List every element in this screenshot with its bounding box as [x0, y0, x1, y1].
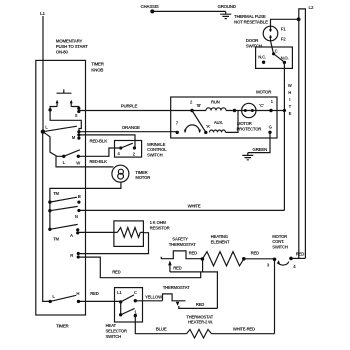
heating element [202, 234, 243, 266]
svg-text:E: E [289, 111, 292, 116]
svg-text:THERMAL FUSE: THERMAL FUSE [234, 14, 266, 19]
motor pin 1 node C [259, 99, 273, 112]
motor aux winding [210, 120, 226, 132]
start switch arm B to A [192, 111, 206, 132]
svg-text:RED: RED [196, 302, 204, 307]
wire red-blk: timer M to wrinkle switch 2 [80, 135, 135, 148]
svg-text:RED-BLK: RED-BLK [89, 159, 108, 164]
svg-text:HEATER-2 W.: HEATER-2 W. [188, 320, 213, 325]
svg-text:RED: RED [173, 265, 181, 270]
wire L to L/W contact [43, 132, 64, 157]
contact H [76, 291, 80, 303]
svg-text:MOTOR: MOTOR [272, 234, 288, 239]
svg-text:YELLOW: YELLOW [145, 295, 163, 300]
thermostat (regulating) [163, 285, 191, 301]
svg-text:TM: TM [53, 191, 59, 196]
junction run/aux [233, 109, 236, 112]
switch arm L to H [50, 295, 76, 301]
centrifugal switch arc [184, 125, 201, 133]
svg-text:SWITCH: SWITCH [246, 43, 262, 48]
svg-text:CHASSIS: CHASSIS [141, 4, 159, 9]
wire white: door switch N.O. down and across to timer N [80, 62, 284, 210]
svg-text:N.C.: N.C. [258, 55, 266, 60]
svg-text:'B': 'B' [197, 103, 202, 108]
svg-text:RED: RED [189, 251, 197, 256]
label WHITE (horizontal) [188, 204, 201, 209]
svg-text:AUX.: AUX. [214, 120, 223, 125]
svg-text:SAFETY: SAFETY [172, 237, 188, 242]
svg-text:WHITE-RED: WHITE-RED [233, 327, 255, 332]
contact R [70, 252, 80, 259]
svg-text:GROUND: GROUND [218, 4, 237, 9]
svg-text:CONTROL: CONTROL [147, 147, 167, 152]
timer box [36, 60, 86, 328]
wire thermal fuse to door switch C [271, 41, 274, 54]
svg-text:BLUE: BLUE [156, 326, 167, 331]
svg-text:SWITCH: SWITCH [106, 334, 122, 339]
svg-text:RED: RED [251, 251, 259, 256]
svg-text:RED-BLK: RED-BLK [90, 138, 109, 143]
svg-text:RESISTOR: RESISTOR [150, 226, 171, 231]
junction white/motor 1 [283, 109, 286, 112]
wire red: switch 4 to L2 [291, 252, 305, 259]
contact L (timer motor) [62, 155, 66, 165]
push button actuator arrows [50, 100, 79, 110]
wire L contact to timer motor [56, 156, 113, 167]
wire L2 to thermal fuse [271, 19, 299, 26]
svg-text:THERMOSTAT: THERMOSTAT [169, 242, 196, 247]
svg-text:SELECTOR: SELECTOR [106, 329, 128, 334]
wire motor 1 to white line [271, 110, 284, 112]
motor node A [204, 124, 210, 134]
svg-text:TIMER: TIMER [135, 170, 148, 175]
motor cont. switch pins 3/4 [267, 234, 296, 269]
svg-text:GREEN: GREEN [252, 147, 267, 152]
junction heating element right [242, 257, 246, 261]
thermal fuse F1/F2 [234, 14, 286, 42]
svg-text:MOTOR: MOTOR [237, 121, 253, 126]
svg-text:RED: RED [90, 291, 98, 296]
svg-text:H: H [76, 291, 79, 296]
svg-text:SWITCH: SWITCH [147, 153, 163, 158]
svg-text:KNOB: KNOB [91, 67, 104, 72]
contact W [76, 155, 81, 166]
wire blue: heat selector 1 to thermostat heater [135, 316, 186, 334]
wire yellow: heat selector C to thermostat [135, 295, 163, 301]
svg-text:DOOR: DOOR [246, 38, 259, 43]
contact TM-N [48, 206, 80, 219]
wire red: R to safety thermostat junction [80, 257, 201, 278]
node L2 (bus bar) [299, 5, 314, 258]
motor run winding [206, 99, 226, 110]
thermostat heater element [187, 329, 212, 338]
wire white-red vertical [274, 259, 276, 333]
ground (motor green ground symbol) [242, 153, 253, 160]
contact M [72, 130, 81, 140]
resistor 1K OHM [114, 220, 171, 246]
wire L1 vertical drop to timer [42, 16, 44, 132]
ground (chassis ground symbol) [218, 4, 237, 19]
wire red: element to motor cont switch 3 [244, 251, 275, 259]
motor box [171, 90, 277, 139]
svg-text:PUSH TO START: PUSH TO START [56, 44, 88, 49]
wire chassis to ground [152, 10, 225, 12]
wire timer motor return bus [50, 182, 121, 229]
node L junction [41, 124, 49, 134]
svg-text:RED: RED [296, 252, 304, 257]
wire white-red bottom [212, 327, 275, 334]
node CHASSIS [141, 4, 159, 13]
timer motor TM [112, 165, 151, 182]
wire L bus down to L/H contact [43, 132, 51, 302]
svg-text:PROTECTOR: PROTECTOR [237, 126, 263, 131]
contact S [75, 107, 81, 118]
contact L (heat) [49, 294, 56, 303]
svg-text:'A': 'A' [206, 124, 211, 129]
svg-text:N: N [75, 214, 78, 219]
wire orange: timer M to motor 7 [80, 125, 177, 132]
motor pin 2 node B [190, 99, 201, 112]
motor protector [237, 103, 263, 131]
svg-text:RED: RED [112, 269, 120, 274]
junction L2/thermal fuse [297, 17, 301, 21]
wire purple: timer S to motor 2 [80, 103, 192, 110]
wire red-blk: W to wrinkle switch 4 [78, 148, 121, 164]
connector arrow to thermostat heater [176, 302, 218, 309]
svg-text:WRINKLE: WRINKLE [147, 142, 166, 147]
contact TM-B [48, 191, 80, 204]
svg-text:I: I [289, 97, 290, 102]
svg-text:THERMOSTAT: THERMOSTAT [163, 285, 190, 290]
svg-text:TIMER: TIMER [56, 323, 70, 328]
svg-text:'C': 'C' [259, 103, 264, 108]
svg-text:S: S [75, 113, 78, 118]
svg-text:WHITE: WHITE [188, 204, 201, 209]
svg-text:HEATING: HEATING [211, 234, 229, 239]
svg-text:NOT RESETABLE: NOT RESETABLE [234, 19, 268, 24]
label thermostat heater [186, 314, 213, 324]
svg-text:TIMER: TIMER [91, 62, 105, 67]
svg-text:F1: F1 [281, 27, 286, 32]
wire red: timer H to heat selector [80, 291, 121, 301]
wire start-left to M [50, 110, 81, 131]
wire 1k resistor to R contact [80, 232, 149, 253]
wire run winding to protector [192, 110, 271, 112]
switch arm L to W [64, 150, 80, 157]
motor pin 7 [176, 120, 179, 134]
switch arm L to S circuit [43, 126, 77, 132]
label timer knob [91, 62, 105, 73]
svg-text:B: B [78, 194, 81, 199]
svg-text:ORANGE: ORANGE [122, 125, 140, 130]
wrinkle control switch [115, 141, 168, 158]
svg-text:ELEMENT: ELEMENT [211, 239, 230, 244]
contact TM-A [48, 224, 79, 241]
contact start-left [48, 108, 51, 111]
motor ground pin G [268, 124, 272, 134]
svg-text:PURPLE: PURPLE [121, 103, 138, 108]
wire A to 1k resistor [79, 231, 117, 233]
svg-text:L1: L1 [40, 11, 45, 16]
svg-text:TM: TM [53, 236, 59, 241]
svg-text:HEAT: HEAT [106, 323, 117, 328]
svg-text:H: H [288, 90, 291, 95]
wire green: motor G to ground [248, 132, 270, 152]
label momentary push to start [56, 38, 88, 54]
svg-text:F2: F2 [281, 37, 286, 42]
wire aux winding up to junction [226, 111, 239, 133]
heat selector switch [106, 288, 143, 339]
wire junction web at heating element [170, 259, 218, 309]
svg-text:C: C [275, 49, 278, 54]
svg-text:MOTOR: MOTOR [256, 90, 272, 95]
safety thermostat [161, 237, 202, 259]
svg-text:ON-80: ON-80 [56, 50, 69, 55]
junction heating element left [201, 257, 205, 261]
svg-text:CONT.: CONT. [272, 239, 284, 244]
svg-text:C: C [134, 290, 137, 295]
svg-text:1 K OHM: 1 K OHM [150, 220, 167, 225]
svg-text:A: A [70, 233, 73, 238]
svg-text:L2: L2 [309, 5, 314, 10]
connector arrow red to safety thermostat [168, 260, 182, 272]
svg-text:MOTOR: MOTOR [135, 175, 151, 180]
svg-text:MOMENTARY: MOMENTARY [56, 38, 83, 43]
svg-text:RUN: RUN [211, 99, 220, 104]
door switch S1 [246, 38, 293, 68]
svg-text:SWITCH: SWITCH [272, 245, 288, 250]
momentary push button [57, 89, 72, 93]
node L1 [40, 11, 45, 16]
label WHITE (vertical) [288, 83, 293, 116]
